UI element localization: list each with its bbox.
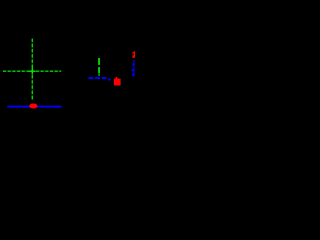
label text (red, vertical, truncated at right edge) <box>132 51 135 58</box>
wire N1 (blue horizontal net at bottom) <box>7 106 61 108</box>
crosshair horizontal arm (green dashed) <box>3 70 61 72</box>
background canvas <box>0 0 140 140</box>
component lead small dash <box>98 74 100 75</box>
label text (blue, vertical, truncated at right edge) <box>132 60 135 76</box>
crosshair vertical arm (green dashed) <box>31 39 33 100</box>
wire N2 (blue dashed horizontal net) <box>88 77 106 79</box>
component lead (green dashed vertical segment) <box>98 58 100 74</box>
unconnected endpoint marker (red box) <box>114 77 121 86</box>
wire N2 tail dash <box>108 79 111 81</box>
node marker (red junction blob on net N1) <box>29 104 37 109</box>
